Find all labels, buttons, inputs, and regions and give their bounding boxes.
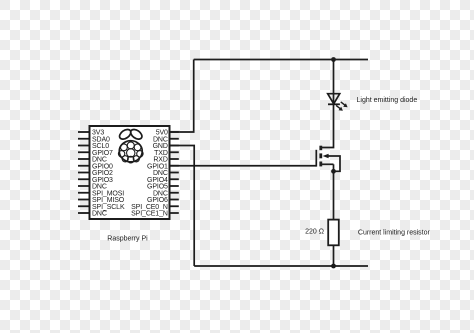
svg-text:DNC: DNC <box>92 211 107 218</box>
pin SCL0 <box>78 143 109 150</box>
pin GPIO4 <box>147 177 179 184</box>
IC U1 Raspberry Pi body <box>90 126 170 219</box>
wire LED cathode to MOSFET drain <box>322 104 334 147</box>
pin SPI_MOSI <box>78 190 124 197</box>
pin 3V3 <box>78 130 104 137</box>
wire LED anode vertical <box>333 60 335 105</box>
svg-text:Light emitting diode: Light emitting diode <box>357 97 418 104</box>
wire +V top rail <box>194 59 368 61</box>
resistor R1 220 ohm <box>328 220 339 246</box>
junction top rail to LED anode <box>331 57 336 62</box>
svg-text:Current limiting resistor: Current limiting resistor <box>358 230 431 237</box>
wire 5V0 pin to top rail <box>170 60 194 133</box>
pin RXD <box>153 157 178 164</box>
svg-text:Raspberry Pi: Raspberry Pi <box>107 236 148 243</box>
junction source-body <box>331 169 336 174</box>
pin DNC left 5 <box>78 157 107 164</box>
pin GPIO5 <box>147 184 179 191</box>
wire GPIO1 to gate <box>170 165 317 167</box>
wire resistor to ground rail <box>333 245 335 266</box>
wire GND pin to ground rail <box>170 146 195 267</box>
pin SPI_MISO <box>78 197 125 204</box>
transistor Q1 N-MOSFET <box>316 146 340 172</box>
pin GPIO3 <box>78 177 113 184</box>
svg-text:220 Ω: 220 Ω <box>305 228 324 235</box>
pin SDA0 <box>78 136 110 143</box>
wire MOSFET source to resistor <box>333 164 335 220</box>
pin 5V0 <box>156 130 179 137</box>
pin SPI_CE1_N <box>131 211 179 218</box>
pin GND <box>153 143 179 150</box>
junction bottom rail <box>331 264 336 269</box>
pin GPIO7 <box>78 150 113 157</box>
pin DNC right 2 <box>153 136 179 143</box>
pin TXD <box>154 150 179 157</box>
LED D1 <box>328 94 348 111</box>
pin GPIO6 <box>147 197 179 204</box>
svg-text:SPI_CE1_N: SPI_CE1_N <box>131 211 168 218</box>
pin GPIO1 <box>147 163 179 170</box>
pin SPI_SCLK <box>78 204 125 211</box>
pin GPIO2 <box>78 170 113 177</box>
pin DNC right 7 <box>153 170 179 177</box>
pin GPIO0 <box>78 163 113 170</box>
pin DNC right 10 <box>153 190 179 197</box>
pin SPI_CE0_N <box>131 204 179 211</box>
wire ground bottom rail <box>194 265 368 267</box>
pin DNC left 13 <box>78 211 107 218</box>
Raspberry Pi logo <box>118 127 144 162</box>
pin DNC left 9 <box>78 184 107 191</box>
